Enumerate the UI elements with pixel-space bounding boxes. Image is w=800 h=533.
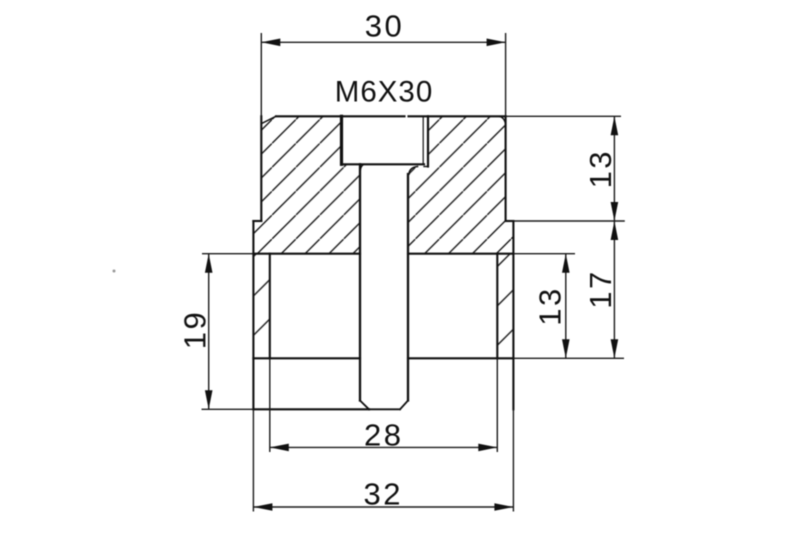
svg-text:32: 32 (363, 477, 402, 512)
svg-text:13: 13 (583, 149, 618, 188)
svg-text:M6X30: M6X30 (335, 76, 433, 109)
svg-text:30: 30 (365, 9, 404, 44)
svg-text:19: 19 (177, 310, 212, 349)
svg-text:17: 17 (583, 269, 618, 308)
svg-text:13: 13 (532, 286, 567, 325)
svg-text:28: 28 (364, 418, 403, 453)
